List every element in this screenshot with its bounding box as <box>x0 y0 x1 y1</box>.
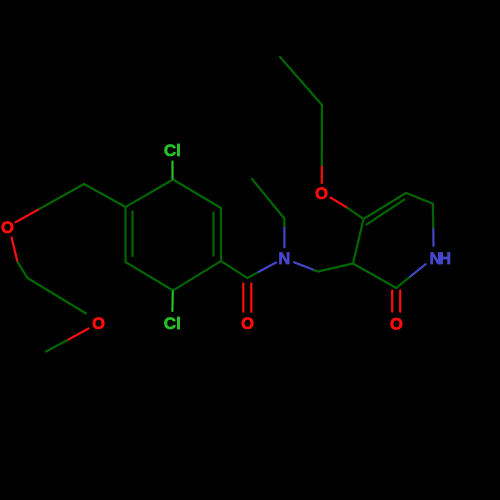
wire LR-C2a amide carbon <box>221 261 247 278</box>
wire C4p-C3p <box>353 219 364 264</box>
wire C3p-C2p <box>353 264 396 289</box>
svg-text:N: N <box>278 250 290 268</box>
wire C4p-O4 oxygen half <box>331 198 347 207</box>
wire CH2-CH3 top <box>280 57 322 105</box>
benzene ring <box>126 180 222 291</box>
wire C2p-NH carbon half <box>396 276 410 288</box>
wire LL-B <box>126 262 174 291</box>
svg-text:O: O <box>241 315 254 333</box>
wire CH2-CH3 ethyl <box>252 179 284 219</box>
wire UL-LL inner double <box>131 212 133 257</box>
carbonyl C2p=O5 double bond <box>392 291 400 312</box>
wire B-LR <box>173 261 221 291</box>
wire C2p-NH nitrogen half <box>411 264 426 276</box>
wire LR-UR inner double <box>212 213 214 256</box>
wire NH-C6p nitrogen half <box>432 228 434 246</box>
svg-text:Cl: Cl <box>164 314 181 333</box>
chlorine Cl2 bond <box>171 292 174 312</box>
wire O2-CH3 carbon half <box>46 340 67 351</box>
wire N1-CH2 bridge nitrogen half <box>294 262 314 270</box>
wire UL-LL outer <box>124 207 126 262</box>
wire C4p-O4 carbon half <box>346 207 364 219</box>
wire N1-CH2 bridge carbon half <box>314 270 318 272</box>
wire N1-CH2 ethyl carbon half <box>283 219 285 227</box>
wire UR-T <box>173 180 221 209</box>
svg-text:O: O <box>1 219 14 237</box>
wire O4-CH2 oxygen half <box>321 165 323 183</box>
wire C2a-N1 nitrogen half <box>259 263 276 272</box>
wire Cx-O1 carbon half <box>38 184 84 210</box>
carbonyl C2a=O3 double bond <box>243 284 251 312</box>
svg-text:O: O <box>315 185 328 203</box>
svg-text:O: O <box>390 315 403 333</box>
wire O1-C1 oxygen half <box>12 238 18 263</box>
wire CH2-C3p bridge <box>318 264 353 272</box>
wire T-UL <box>126 180 174 208</box>
chlorine Cl1 bond <box>171 162 173 179</box>
svg-text:Cl: Cl <box>164 141 181 160</box>
wire NH-C6p carbon half <box>432 204 435 228</box>
svg-text:NH: NH <box>430 250 452 268</box>
wire C1-O2 <box>28 278 87 314</box>
wire C5p=C4p inner double <box>367 200 405 225</box>
wire C6p-C5p <box>406 193 433 204</box>
wire O1-C1 carbon half <box>18 262 28 278</box>
wire C5p=C4p outer double <box>364 193 407 219</box>
wire O2-CH3 oxygen half <box>67 329 89 341</box>
wire C2a-N1 carbon half <box>247 272 259 278</box>
wire Cx-O1 oxygen half <box>16 210 39 223</box>
svg-text:O: O <box>92 315 105 333</box>
wire UL-Cx benzylic <box>84 184 126 207</box>
wire LR-UR outer <box>220 208 222 261</box>
wire O4-CH2 carbon half <box>321 105 323 165</box>
wire N1-CH2 ethyl nitrogen half <box>283 226 285 247</box>
